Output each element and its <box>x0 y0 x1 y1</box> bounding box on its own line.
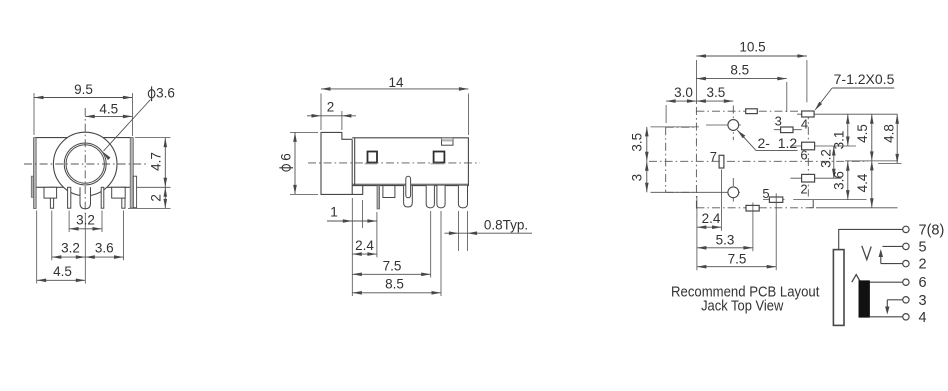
svg-text:3: 3 <box>775 113 782 128</box>
svg-text:7-1.2X0.5: 7-1.2X0.5 <box>834 71 895 87</box>
svg-text:8.5: 8.5 <box>730 63 749 78</box>
svg-text:3.2: 3.2 <box>819 149 834 168</box>
svg-text:4.7: 4.7 <box>149 152 164 171</box>
svg-text:7: 7 <box>710 149 717 164</box>
svg-text:9.5: 9.5 <box>74 82 93 97</box>
svg-text:4.5: 4.5 <box>855 124 870 143</box>
svg-text:3: 3 <box>629 174 644 182</box>
svg-text:Jack Top View: Jack Top View <box>701 297 783 314</box>
svg-text:3.6: 3.6 <box>831 171 846 190</box>
svg-text:3.5: 3.5 <box>707 85 726 100</box>
svg-text:14: 14 <box>388 75 404 90</box>
svg-text:2: 2 <box>800 182 807 197</box>
svg-text:3.0: 3.0 <box>674 85 693 100</box>
svg-text:1: 1 <box>330 204 338 220</box>
svg-text:5: 5 <box>762 186 769 201</box>
svg-text:2: 2 <box>919 257 927 273</box>
svg-text:3.1: 3.1 <box>831 131 846 150</box>
svg-text:7.5: 7.5 <box>383 258 402 273</box>
svg-text:3.5: 3.5 <box>629 133 644 152</box>
svg-text:3: 3 <box>919 293 927 309</box>
svg-text:4.8: 4.8 <box>881 124 896 143</box>
svg-text:2.4: 2.4 <box>355 238 374 253</box>
svg-text:8.5: 8.5 <box>385 277 404 292</box>
svg-text:0.8Typ.: 0.8Typ. <box>484 218 528 233</box>
svg-text:2: 2 <box>327 99 335 114</box>
svg-text:7(8): 7(8) <box>919 222 945 238</box>
svg-text:5: 5 <box>919 239 927 255</box>
svg-text:6: 6 <box>800 147 807 162</box>
svg-text:3.6: 3.6 <box>95 241 114 256</box>
svg-text:2- 1.2: 2- 1.2 <box>758 135 798 151</box>
svg-text:3.2: 3.2 <box>76 213 95 228</box>
svg-text:7.5: 7.5 <box>728 252 747 267</box>
svg-text:6: 6 <box>279 153 294 161</box>
svg-text:3.6: 3.6 <box>156 86 175 101</box>
svg-text:6: 6 <box>919 275 927 291</box>
svg-text:4.4: 4.4 <box>855 173 870 192</box>
svg-text:2.4: 2.4 <box>702 211 721 226</box>
svg-text:10.5: 10.5 <box>739 40 765 55</box>
svg-text:5.3: 5.3 <box>716 233 735 248</box>
svg-text:2: 2 <box>149 194 164 202</box>
svg-text:4.5: 4.5 <box>99 101 118 116</box>
svg-text:4: 4 <box>919 310 927 326</box>
svg-text:4.5: 4.5 <box>53 264 72 279</box>
svg-text:3.2: 3.2 <box>61 241 80 256</box>
svg-text:4: 4 <box>801 117 808 132</box>
